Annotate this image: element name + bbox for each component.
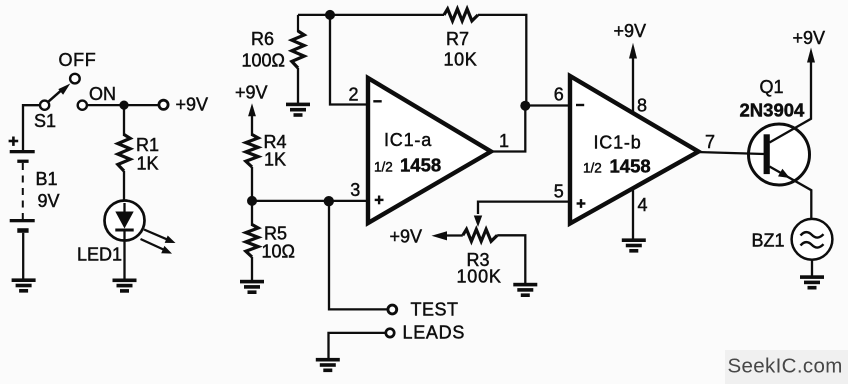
svg-text:LEADS: LEADS [403, 322, 466, 342]
switch S1 OFF contact [70, 74, 80, 84]
op-amp IC1-a [368, 78, 491, 223]
svg-text:BZ1: BZ1 [752, 231, 785, 251]
ground (BZ1) [800, 275, 824, 279]
switch S1 arm [48, 90, 62, 102]
svg-text:+9V: +9V [793, 28, 826, 48]
wire pin 4 to ground [632, 189, 634, 240]
ground (LED1) [113, 279, 137, 283]
svg-text:IC1-b: IC1-b [594, 133, 642, 153]
svg-text:+9V: +9V [614, 21, 647, 41]
svg-text:Q1: Q1 [760, 77, 784, 97]
buzzer BZ1 [792, 219, 833, 260]
wire BZ1 to ground [811, 260, 813, 277]
junction dot (R1 top node) [119, 101, 128, 110]
junction dot (top rail) [325, 10, 335, 20]
LED1 [105, 201, 145, 241]
svg-text:4: 4 [638, 195, 648, 215]
resistor R6 [292, 31, 304, 68]
wire pin 7 to Q1 base [697, 152, 765, 154]
svg-text:3: 3 [350, 180, 360, 200]
plus sign IC1-b [577, 202, 586, 204]
svg-text:1K: 1K [264, 150, 286, 170]
svg-text:10Ω: 10Ω [262, 242, 295, 262]
ground (R6) [286, 103, 310, 107]
svg-text:S1: S1 [34, 111, 56, 131]
Q1 emitter [770, 167, 812, 220]
Q1 collector to +9V [770, 56, 812, 143]
svg-text:R7: R7 [446, 29, 469, 49]
ground (R3) [513, 283, 537, 287]
op-amp IC1-b [570, 76, 699, 224]
wire non-inverting rail pin 3 [252, 200, 368, 202]
svg-text:7: 7 [705, 132, 715, 152]
wire LEADS terminal to ground [329, 333, 386, 359]
plus sign IC1-a [375, 199, 384, 201]
wire battery to ground [22, 233, 24, 279]
ground (battery) [12, 278, 36, 282]
watermark SeekIC.com [725, 350, 848, 384]
wire R3 left arm to +9V arrow [446, 234, 463, 236]
svg-text:1/2: 1/2 [374, 160, 393, 175]
transistor Q1 [749, 124, 810, 185]
svg-text:R1: R1 [136, 135, 159, 155]
svg-text:9V: 9V [38, 191, 60, 211]
wire R3 right arm to ground [497, 235, 525, 283]
svg-text:1/2: 1/2 [583, 161, 602, 176]
ground (LEADS) [316, 358, 340, 362]
svg-text:ON: ON [89, 84, 116, 104]
wire op-amp A output to feedback node [491, 106, 525, 152]
wire R5 to ground [251, 257, 253, 281]
svg-text:+9V: +9V [390, 227, 423, 247]
junction dot (pin 6 node) [520, 101, 530, 111]
svg-text:8: 8 [637, 96, 647, 116]
svg-text:TEST: TEST [411, 299, 459, 319]
minus sign IC1-b [576, 104, 584, 106]
svg-text:R6: R6 [251, 29, 274, 49]
wire pin 5 to R3 wiper [478, 202, 570, 214]
terminal TEST [388, 305, 397, 314]
svg-text:100Ω: 100Ω [242, 51, 286, 71]
svg-text:B1: B1 [36, 169, 58, 189]
switch S1 common contact [40, 101, 49, 110]
svg-text:R5: R5 [264, 224, 287, 244]
ground (pin 4) [622, 238, 646, 242]
wire junction to R1 [123, 105, 125, 136]
ground (R5) [240, 280, 264, 284]
potentiometer R3 [463, 229, 497, 241]
supply arrow (R4) [251, 110, 253, 136]
wire top feedback rail [298, 14, 444, 16]
switch S1 ON contact [78, 101, 87, 110]
resistor R1 [118, 135, 130, 172]
wire R4 to junction [251, 167, 253, 201]
svg-text:1458: 1458 [610, 155, 651, 176]
svg-text:OFF: OFF [59, 50, 97, 70]
svg-text:SeekIC.com: SeekIC.com [728, 355, 843, 378]
wire to pin 6 [525, 104, 570, 106]
svg-text:IC1-a: IC1-a [384, 130, 432, 150]
wire pin 8 to +9V [632, 52, 634, 113]
wire pin3 node to TEST terminal [329, 201, 388, 310]
wire R6 top lead [297, 15, 299, 32]
resistor R5 [251, 201, 253, 226]
svg-text:1: 1 [499, 131, 509, 151]
svg-text:100K: 100K [457, 267, 502, 287]
wire ON contact to +9V terminal [87, 104, 159, 106]
terminal +9V [159, 100, 168, 109]
svg-text:2: 2 [349, 85, 359, 105]
minus sign IC1-a [373, 100, 381, 102]
svg-text:1458: 1458 [400, 154, 441, 175]
wire switch common to battery [23, 105, 40, 151]
wire inverting input pin 2 [330, 15, 368, 105]
junction dot (R4/R5) [247, 196, 257, 206]
svg-text:+9V: +9V [235, 83, 268, 103]
svg-text:+9V: +9V [176, 95, 209, 115]
wire R1 to LED [123, 171, 125, 205]
svg-text:2N3904: 2N3904 [740, 100, 806, 121]
terminal LEADS [386, 329, 394, 337]
battery B1 [9, 140, 19, 143]
svg-text:6: 6 [554, 85, 564, 105]
wire R6 to ground [297, 68, 299, 103]
resistor R7 [444, 9, 478, 21]
svg-text:LED1: LED1 [77, 245, 122, 265]
svg-text:5: 5 [554, 182, 564, 202]
svg-text:10K: 10K [444, 50, 478, 70]
svg-text:1K: 1K [137, 154, 159, 174]
LED light arrows [144, 230, 168, 240]
junction dot (pin3/TEST node) [324, 196, 334, 206]
wire LED to ground [123, 240, 125, 279]
resistor R4 [246, 135, 258, 168]
